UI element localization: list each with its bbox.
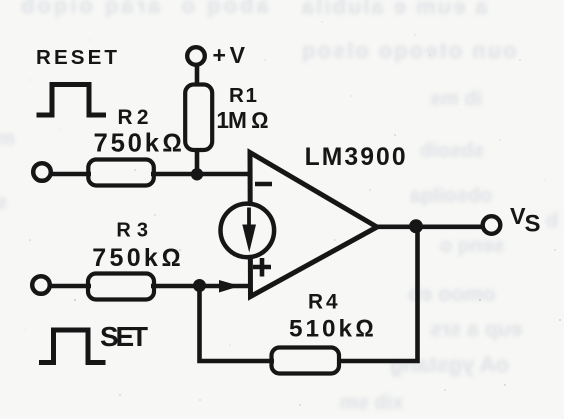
svg-text:1M: 1M (216, 107, 247, 133)
svg-text:S: S (525, 211, 541, 238)
svg-text:510k: 510k (289, 316, 352, 343)
svg-text:Ω: Ω (251, 107, 268, 133)
svg-text:750k: 750k (94, 129, 160, 157)
svg-text:Ω: Ω (355, 316, 374, 343)
svg-text:R4: R4 (308, 291, 338, 314)
svg-text:750k: 750k (92, 244, 158, 272)
svg-text:LM3900: LM3900 (305, 144, 406, 171)
svg-text:R1: R1 (229, 84, 257, 107)
svg-text:+V: +V (213, 42, 246, 68)
svg-text:SET: SET (100, 321, 148, 352)
svg-text:Ω: Ω (162, 129, 182, 157)
svg-text:RESET: RESET (36, 46, 117, 69)
svg-text:R3: R3 (116, 220, 148, 242)
svg-text:Ω: Ω (162, 244, 181, 272)
svg-text:R2: R2 (118, 106, 149, 129)
